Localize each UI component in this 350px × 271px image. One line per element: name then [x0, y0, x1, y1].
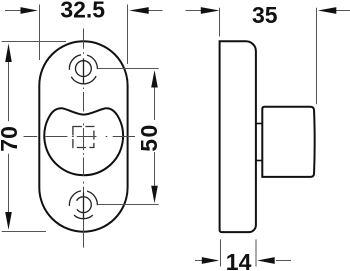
- dim 32.5 left arrow: [5, 10, 22, 12]
- extension line from top screw hole (dim 50): [97, 68, 158, 70]
- dim 32.5 right arrow: [148, 10, 163, 12]
- bottom screw hole (bore arc, countersink arcs, slot): [69, 191, 97, 219]
- dim 70 lower line and arrow: [8, 154, 10, 213]
- svg-text:50: 50: [136, 123, 162, 152]
- dim 35 left arrow: [186, 10, 202, 12]
- knob neck lower line (side view): [256, 160, 262, 162]
- dim 14 left arrow: [195, 260, 203, 262]
- turn-knob cam outline (front view): [44, 108, 123, 175]
- svg-text:70: 70: [0, 126, 22, 152]
- knob neck upper line (side view): [256, 123, 262, 125]
- dim 35 right arrow: [335, 10, 350, 12]
- dim 70 bottom extension line: [2, 231, 46, 233]
- dim 35 left extension line: [219, 8, 221, 37]
- dim 50 lower line and arrow: [154, 152, 156, 187]
- dim 14 right arrow: [276, 260, 291, 262]
- dim 50 upper line and arrow: [154, 87, 156, 121]
- top screw hole (bore circle, countersink arcs, slot): [69, 55, 97, 84]
- dim 32.5 left extension line: [39, 5, 41, 61]
- dim 14 left extension line: [220, 239, 222, 266]
- vertical centerline (front view, dash-dot): [83, 29, 85, 248]
- dim 32.5 right extension line: [127, 5, 129, 65]
- svg-text:32.5: 32.5: [60, 0, 105, 22]
- dim 35 right extension line: [316, 8, 318, 105]
- dim 70 upper line and arrow: [8, 61, 10, 121]
- plate outline (front view, stadium shape): [39, 41, 127, 231]
- svg-text:35: 35: [252, 2, 278, 28]
- svg-text:14: 14: [226, 249, 252, 271]
- dim 70 top extension line: [2, 41, 66, 43]
- knob (side view): [262, 107, 314, 177]
- dim 14 right extension line: [255, 239, 257, 266]
- plate profile (side view): [220, 41, 256, 232]
- extension line from bottom screw hole (dim 50): [97, 204, 158, 206]
- spindle square hole (hidden, dashed): [73, 127, 94, 148]
- horizontal centerline (front view, dash-dot): [24, 136, 136, 138]
